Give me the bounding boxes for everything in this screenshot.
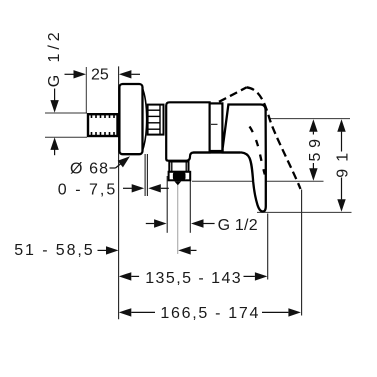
lever handle (closed, solid) bbox=[223, 105, 266, 212]
ext lines G1/2 outlet bbox=[166, 176, 168, 233]
tick top right (lever nose level) bbox=[269, 118, 350, 120]
dashed lever inner curve bbox=[250, 127, 265, 175]
svg-text:25: 25 bbox=[91, 66, 109, 83]
outlet tip bbox=[174, 181, 181, 185]
ext lines 0-7,5 bbox=[144, 154, 146, 196]
tick 91 bottom bbox=[257, 211, 352, 213]
mixer body bbox=[166, 102, 209, 160]
svg-text:0 - 7,5: 0 - 7,5 bbox=[58, 182, 116, 199]
dim 166,5 - 174 bbox=[119, 308, 301, 316]
lever handle open position (dashed) top edge bbox=[219, 87, 247, 101]
ring parting tick bbox=[211, 123, 218, 125]
supply pipe G1/2 bbox=[88, 114, 118, 136]
escutcheon O68 bbox=[119, 84, 142, 154]
dim G 1/2 outlet bbox=[146, 219, 215, 227]
svg-text:Ø 68: Ø 68 bbox=[70, 161, 108, 178]
ext line B (wall line) bbox=[118, 66, 120, 319]
ext line A (25 dim left) bbox=[85, 67, 87, 113]
cartridge ring bbox=[210, 103, 223, 151]
svg-text:135,5 - 143: 135,5 - 143 bbox=[145, 270, 241, 287]
svg-text:166,5 - 174: 166,5 - 174 bbox=[160, 305, 258, 322]
svg-text:G 1/2: G 1/2 bbox=[218, 217, 258, 234]
svg-text:G 1/2: G 1/2 bbox=[46, 32, 63, 87]
outlet upper section bbox=[169, 162, 188, 172]
dim 0 - 7,5 bbox=[123, 184, 169, 192]
dim G1/2 supply (left vertical) bbox=[50, 89, 58, 156]
dashed lever front curve bbox=[247, 87, 301, 189]
svg-text:51 - 58,5: 51 - 58,5 bbox=[14, 242, 93, 259]
ext line dashed lever tip bbox=[301, 190, 303, 316]
ext line lever tip bbox=[267, 214, 269, 280]
dim 25 bbox=[65, 70, 141, 78]
outlet flange nut bbox=[169, 172, 191, 181]
dim 51 - 58,5 bbox=[98, 246, 197, 254]
tick pipe top bbox=[45, 112, 87, 114]
dim 91 (right vertical) bbox=[337, 119, 345, 212]
outlet centerline bbox=[177, 150, 179, 254]
knurled connection nut bbox=[148, 105, 164, 135]
tick pipe bottom bbox=[45, 136, 87, 138]
escutcheon rim (sliver right of escutcheon) bbox=[142, 87, 147, 152]
dim 59 (right vertical) bbox=[309, 119, 317, 181]
body bottom edge continuation bbox=[193, 151, 240, 153]
tick 59 bottom (long) bbox=[192, 180, 324, 182]
dim 135,5 - 143 bbox=[119, 272, 268, 280]
